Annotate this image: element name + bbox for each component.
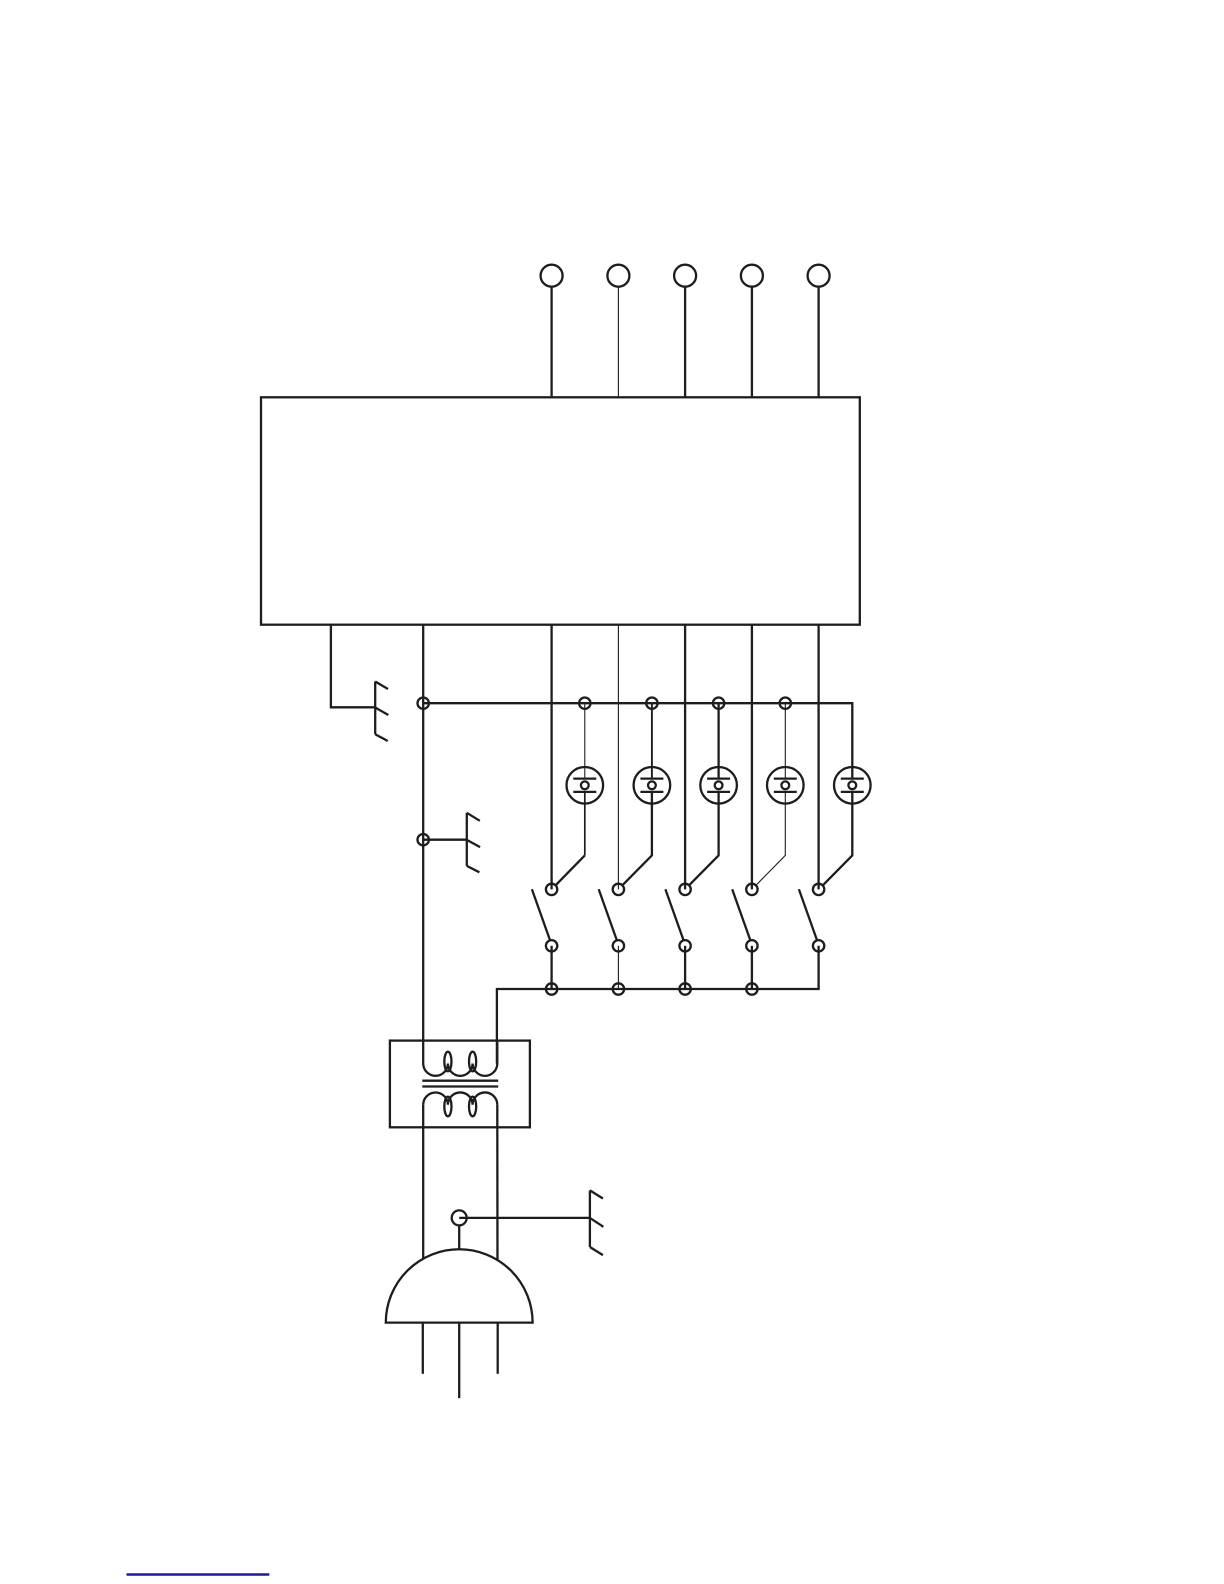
- chassis ground G3: [590, 1190, 604, 1255]
- wire pin1 stem: [550, 287, 552, 398]
- switch S1: [532, 884, 557, 995]
- lamp L4: [767, 767, 804, 804]
- wire column 5: [817, 625, 819, 890]
- wire T1 secondary right lead: [496, 1105, 499, 1280]
- T1 core: [422, 1080, 498, 1082]
- node J2: [579, 698, 590, 709]
- terminal pin 4: [741, 265, 763, 287]
- node J1 (rail / lamp bus): [418, 698, 429, 709]
- node J3: [646, 698, 657, 709]
- terminal pin 2: [607, 265, 629, 287]
- wire T1 secondary left lead: [422, 1105, 424, 1280]
- wire column 3: [684, 625, 686, 890]
- plug prong middle: [458, 1323, 460, 1399]
- wire ground tap: [423, 839, 467, 841]
- wire lamp bus: [423, 703, 852, 778]
- wire lamp L4 feed: [784, 703, 786, 778]
- wire lamp L1 feed: [584, 703, 586, 778]
- T1 secondary winding: [423, 1092, 497, 1104]
- lamp L2: [634, 767, 671, 804]
- wire earth stub: [458, 1225, 460, 1255]
- lamp L5: [834, 767, 871, 804]
- plug prong left: [422, 1323, 424, 1374]
- chassis ground G2: [467, 813, 480, 873]
- chassis ground G1: [375, 682, 388, 742]
- wire pin5 stem: [817, 287, 819, 398]
- terminal pin 3: [674, 265, 696, 287]
- wire earth to chassis: [459, 1217, 590, 1219]
- wire column 1: [550, 625, 552, 890]
- wire T1 right lead upper: [496, 1041, 498, 1064]
- wire lamp L2 feed: [651, 703, 653, 778]
- wire column 4: [751, 625, 753, 890]
- switch S2: [599, 884, 624, 995]
- switch S5: [799, 884, 824, 952]
- wire pin2 stem: [617, 287, 619, 398]
- wire lamp L2 to switch S2: [623, 792, 652, 885]
- wire pin3 stem: [684, 287, 686, 398]
- terminal pin 5: [808, 265, 830, 287]
- wire block to chassis fork: [331, 625, 375, 708]
- wire lamp L1 to switch S1: [584, 792, 586, 856]
- node J6 (rail / ground tap): [418, 834, 429, 845]
- block U1 (circuit board outline): [261, 397, 860, 624]
- switch S4: [732, 884, 757, 995]
- plug prong right: [497, 1323, 499, 1374]
- T1 primary winding: [423, 1064, 497, 1076]
- node J7 (plug earth): [452, 1210, 467, 1225]
- lamp L3: [700, 767, 737, 804]
- wire lamp L5 to switch S5: [823, 792, 852, 885]
- switch S3: [665, 884, 690, 995]
- hyperlink underline: [127, 1573, 270, 1576]
- transformer T1: [390, 1041, 530, 1128]
- AC plug P1: [386, 1249, 533, 1322]
- wire lamp L4 to switch S4: [756, 792, 785, 885]
- node J4: [713, 698, 724, 709]
- wire lamp L3 to switch S3: [689, 792, 718, 885]
- node J5: [780, 698, 791, 709]
- wire column 2: [617, 625, 619, 890]
- wire pin4 stem: [751, 287, 753, 398]
- wire switch bus: [497, 946, 819, 1064]
- wire left rail: [422, 625, 424, 1064]
- wire lamp L3 feed: [717, 703, 719, 778]
- lamp L1: [567, 767, 604, 804]
- terminal pin 1: [541, 265, 563, 287]
